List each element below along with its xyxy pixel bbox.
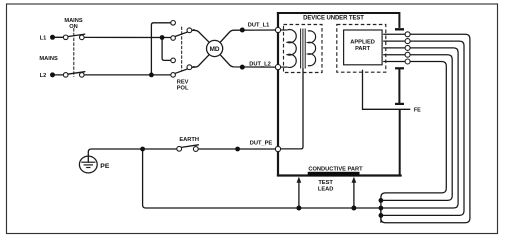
svg-text:MD: MD [210, 46, 220, 53]
svg-text:PART: PART [355, 46, 371, 52]
svg-text:PE: PE [100, 163, 110, 170]
svg-text:DUT_PE: DUT_PE [250, 141, 273, 147]
svg-text:FE: FE [414, 108, 421, 114]
svg-text:L1: L1 [40, 35, 47, 41]
svg-text:L2: L2 [40, 73, 47, 79]
svg-text:DUT_L1: DUT_L1 [248, 23, 270, 29]
svg-text:LEAD: LEAD [318, 187, 333, 193]
svg-text:DUT_L2: DUT_L2 [249, 61, 271, 67]
svg-text:DEVICE UNDER TEST: DEVICE UNDER TEST [303, 16, 364, 22]
svg-text:ON: ON [69, 24, 78, 30]
svg-text:EARTH: EARTH [179, 137, 199, 143]
svg-text:TEST: TEST [318, 180, 333, 186]
svg-text:MAINS: MAINS [39, 56, 58, 62]
svg-text:CONDUCTIVE PART: CONDUCTIVE PART [308, 167, 363, 173]
svg-text:APPLIED: APPLIED [350, 40, 375, 46]
svg-text:POL: POL [177, 86, 189, 92]
